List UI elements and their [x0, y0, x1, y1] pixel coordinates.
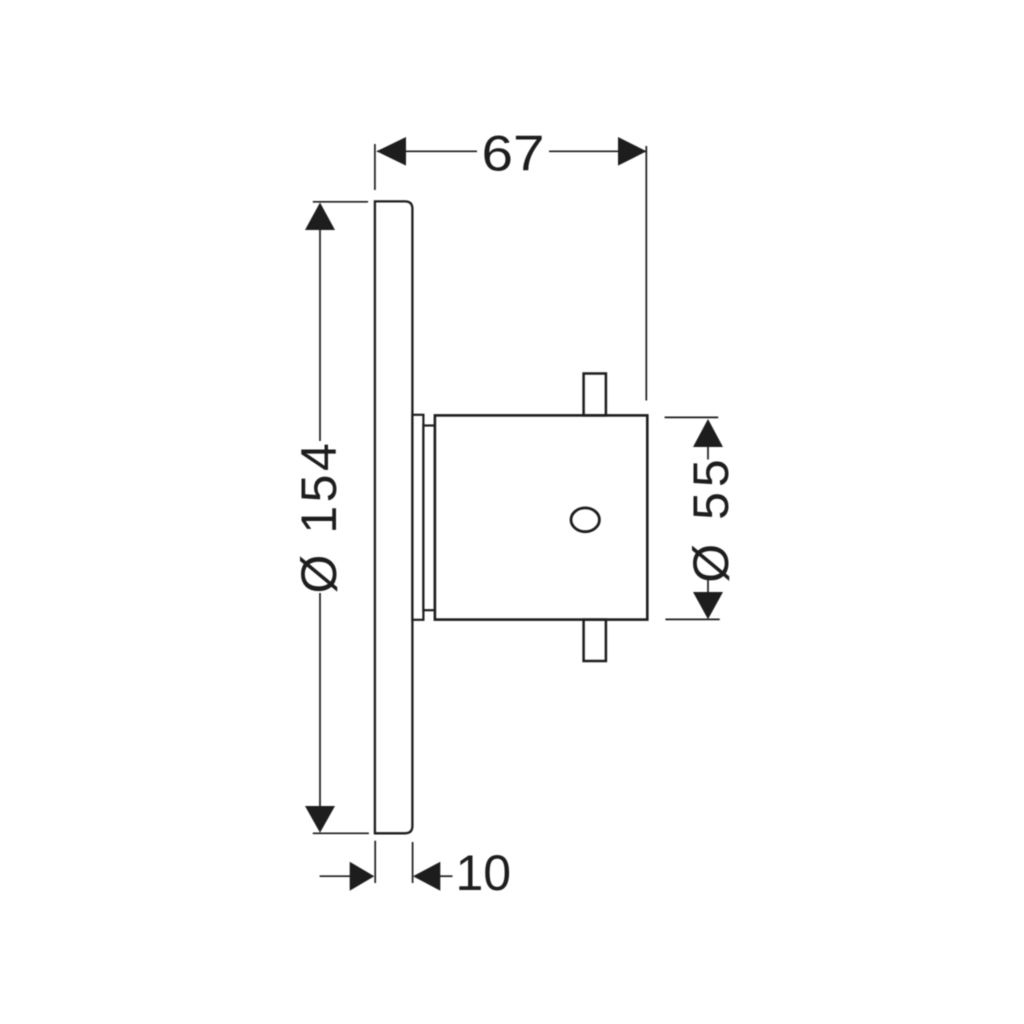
svg-text:Ø 154: Ø 154 — [291, 440, 347, 594]
svg-text:67: 67 — [482, 126, 545, 182]
svg-text:10: 10 — [456, 845, 512, 901]
svg-text:Ø 55: Ø 55 — [683, 454, 739, 582]
